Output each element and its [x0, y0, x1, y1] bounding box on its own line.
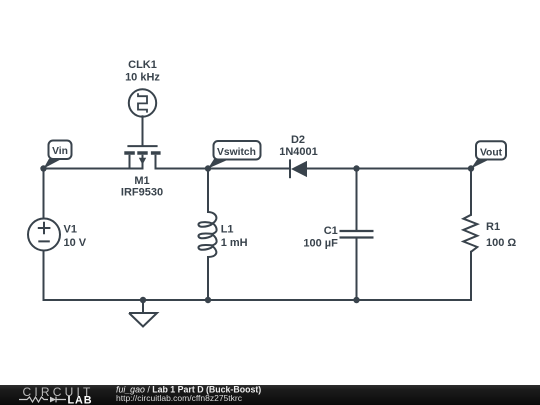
junction dot C1 bottom [353, 297, 359, 303]
wire C1 bottom lead [356, 238, 358, 301]
wire top right (D2 anode to Vout node) [307, 168, 471, 170]
svg-text:10 kHz: 10 kHz [125, 72, 160, 84]
svg-text:M1: M1 [134, 175, 149, 187]
svg-text:1 mH: 1 mH [221, 237, 248, 249]
svg-text:CLK1: CLK1 [128, 59, 157, 71]
diode D2 1N4001 [290, 159, 307, 178]
label V1 value [64, 223, 87, 249]
svg-text:100 µF: 100 µF [303, 238, 338, 250]
transistor M1 (PMOS IRF9530) [124, 146, 160, 168]
label R1 value [486, 221, 516, 249]
wire bottom rail [44, 299, 472, 301]
ground [129, 300, 157, 327]
svg-text:Vout: Vout [480, 147, 503, 158]
footer bar [0, 385, 540, 405]
arrow M1 body [139, 158, 146, 165]
svg-text:100 Ω: 100 Ω [486, 237, 516, 249]
svg-text:1N4001: 1N4001 [279, 146, 318, 158]
wire L1 top lead [207, 169, 209, 213]
wire C1 top lead [356, 169, 358, 231]
wire left lower (V1 minus to bottom rail) [43, 251, 45, 301]
wire left upper (Vin to V1 plus) [43, 169, 45, 219]
node flag Vswitch [208, 141, 261, 169]
junction dot Vout [468, 165, 474, 171]
junction dot Vin [40, 165, 46, 171]
logo CircuitLab [19, 385, 94, 405]
wire right lower (R1 to bottom rail) [470, 252, 472, 300]
svg-text:C1: C1 [324, 225, 338, 237]
svg-text:L1: L1 [221, 224, 234, 236]
svg-text:Vin: Vin [52, 146, 68, 157]
junction dot Vswitch [205, 165, 211, 171]
junction dot C1 top [353, 165, 359, 171]
inductor L1 [198, 212, 216, 257]
label M1 value [121, 175, 163, 199]
label D2 value [279, 134, 318, 158]
clock source CLK1 [129, 89, 156, 116]
footer title text [116, 385, 261, 404]
svg-text:IRF9530: IRF9530 [121, 187, 163, 199]
node flag Vin [44, 141, 72, 169]
label L1 value [221, 224, 248, 250]
svg-text:V1: V1 [64, 223, 77, 235]
svg-text:D2: D2 [291, 134, 305, 146]
wire top left (Vin node to M1 source/body) [44, 168, 143, 170]
wire L1 bottom lead [207, 257, 209, 300]
label C1 value [303, 225, 338, 250]
svg-text:Vswitch: Vswitch [217, 147, 256, 158]
svg-text:LAB: LAB [68, 394, 93, 405]
wire top mid (M1 drain to D2 cathode) [156, 168, 290, 170]
capacitor C1 [340, 231, 374, 238]
svg-text:R1: R1 [486, 221, 500, 233]
wire right upper (Vout to R1) [470, 169, 472, 215]
svg-text:http://circuitlab.com/cffn8z27: http://circuitlab.com/cffn8z275tkrc [116, 393, 243, 403]
node flag Vout [471, 141, 506, 168]
label CLK1 value [125, 59, 160, 84]
wire CLK1 to gate [142, 116, 144, 145]
junction dot ground [140, 297, 146, 303]
resistor R1 [463, 215, 477, 252]
junction dot L1 bottom [205, 297, 211, 303]
voltage source V1 [28, 219, 60, 251]
svg-text:10 V: 10 V [64, 237, 87, 249]
